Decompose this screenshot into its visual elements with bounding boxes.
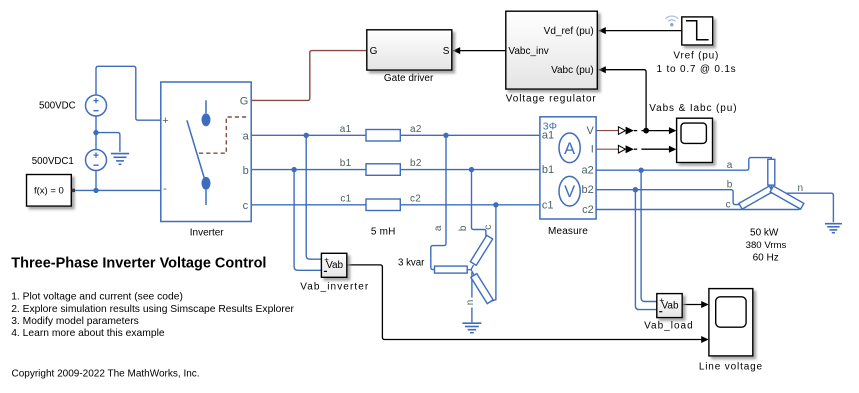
svg-text:a2: a2 <box>410 124 422 135</box>
svg-text:+: + <box>324 255 329 265</box>
svg-text:500VDC: 500VDC <box>39 100 76 111</box>
svg-text:a1: a1 <box>340 124 352 135</box>
svg-text:Vabc (pu): Vabc (pu) <box>551 65 594 76</box>
svg-text:Inverter: Inverter <box>190 228 225 239</box>
svg-text:c: c <box>243 200 249 212</box>
svg-text:Line voltage: Line voltage <box>699 362 763 373</box>
svg-text:G: G <box>240 95 249 107</box>
svg-text:Vd_ref (pu): Vd_ref (pu) <box>544 26 594 37</box>
svg-text:3. Modify model parameters: 3. Modify model parameters <box>11 316 139 327</box>
svg-text:a: a <box>243 131 250 143</box>
svg-text:Three-Phase Inverter Voltage C: Three-Phase Inverter Voltage Control <box>11 255 266 271</box>
svg-text:Copyright 2009-2022 The MathWo: Copyright 2009-2022 The MathWorks, Inc. <box>12 368 200 379</box>
svg-text:500VDC1: 500VDC1 <box>32 156 74 167</box>
svg-text:Measure: Measure <box>548 226 588 237</box>
svg-text:c: c <box>483 225 494 230</box>
svg-text:a: a <box>433 225 444 231</box>
svg-text:b: b <box>458 225 469 231</box>
svg-text:a1: a1 <box>542 129 554 141</box>
svg-text:b: b <box>243 165 249 177</box>
svg-text:+: + <box>162 115 168 127</box>
svg-text:f(x) = 0: f(x) = 0 <box>34 186 64 197</box>
svg-text:b2: b2 <box>410 158 422 169</box>
svg-text:n: n <box>798 183 804 194</box>
svg-text:Vab_load: Vab_load <box>644 321 694 332</box>
svg-text:b1: b1 <box>542 164 554 176</box>
svg-text:+: + <box>659 295 664 305</box>
svg-text:b2: b2 <box>582 184 594 196</box>
svg-text:Voltage regulator: Voltage regulator <box>506 93 597 104</box>
svg-text:a: a <box>727 160 733 171</box>
svg-text:S: S <box>443 46 450 57</box>
svg-text:50 kW: 50 kW <box>750 228 779 239</box>
svg-text:b1: b1 <box>340 158 352 169</box>
svg-text:Vref (pu): Vref (pu) <box>673 50 719 61</box>
svg-text:c2: c2 <box>410 193 421 204</box>
svg-text:Vab_inverter: Vab_inverter <box>300 281 369 292</box>
svg-text:-: - <box>163 183 167 195</box>
svg-text:c1: c1 <box>542 199 554 211</box>
svg-text:A: A <box>564 140 575 158</box>
svg-text:4. Learn more about this examp: 4. Learn more about this example <box>11 328 165 339</box>
svg-text:V: V <box>564 183 575 201</box>
svg-text:60 Hz: 60 Hz <box>753 252 779 263</box>
svg-text:5 mH: 5 mH <box>371 226 396 237</box>
svg-text:1 to 0.7 @ 0.1s: 1 to 0.7 @ 0.1s <box>657 64 737 75</box>
svg-text:Gate driver: Gate driver <box>384 73 434 84</box>
svg-text:380 Vrms: 380 Vrms <box>746 240 787 251</box>
svg-text:V: V <box>586 125 594 137</box>
svg-text:Vabc_inv: Vabc_inv <box>508 46 548 57</box>
svg-text:I: I <box>591 144 594 156</box>
svg-text:n: n <box>465 300 476 306</box>
svg-text:Vabs & Iabc (pu): Vabs & Iabc (pu) <box>649 103 737 114</box>
svg-text:1. Plot voltage and current (s: 1. Plot voltage and current (see code) <box>11 292 183 303</box>
svg-text:c1: c1 <box>340 193 351 204</box>
svg-text:3 kvar: 3 kvar <box>398 258 425 269</box>
svg-text:2. Explore simulation results: 2. Explore simulation results using Sims… <box>11 304 294 315</box>
svg-text:c: c <box>726 199 731 210</box>
svg-text:a2: a2 <box>582 165 594 177</box>
svg-text:b: b <box>727 180 733 191</box>
svg-text:G: G <box>370 46 378 57</box>
svg-text:c2: c2 <box>582 204 594 216</box>
